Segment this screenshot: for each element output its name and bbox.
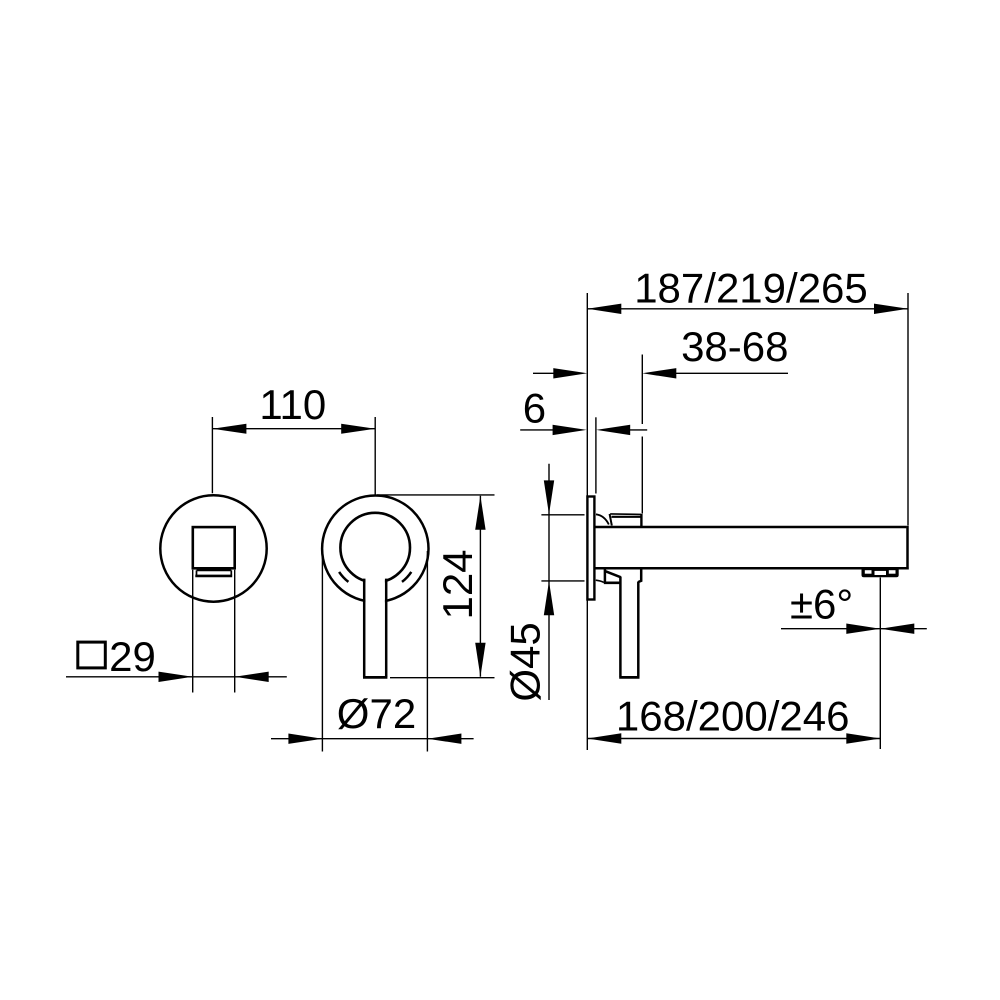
square projection extension lines <box>193 570 235 693</box>
dimension 29 label <box>109 633 156 680</box>
dimension 38-68 line with arrows <box>533 368 788 378</box>
dimension 110 label <box>259 381 326 428</box>
dimension square-29 symbol <box>78 642 106 668</box>
dimension 38-68 right extension line (with gap) <box>641 355 643 514</box>
dimension 6 right extension line <box>595 417 597 493</box>
dimension O45 label (rotated) <box>502 622 549 701</box>
lever shaft (front view) <box>363 579 387 678</box>
outlet escutcheon circle (left) <box>160 495 266 601</box>
dimension 124 label (rotated) <box>434 549 481 619</box>
dimension 6 label <box>523 385 546 432</box>
lever shaft (side) <box>619 577 639 678</box>
dimension O72 extension lines <box>322 551 427 752</box>
collar front face <box>640 514 642 526</box>
svg-text:Ø45: Ø45 <box>502 622 549 701</box>
dimension 124 line with arrows <box>475 496 485 677</box>
dimension 168/200/246 line with arrows <box>587 733 880 743</box>
lever block right edge (side) <box>638 569 641 582</box>
dash mark lower-left of ring <box>339 572 348 582</box>
dimension 168/200/246 label <box>616 693 850 740</box>
dimension 124 extension lines <box>377 495 495 678</box>
escutcheon plate (side) <box>587 497 594 600</box>
collar top face line <box>612 516 641 518</box>
dimension 187 right extension line <box>907 293 909 526</box>
dimension O45 extension lines <box>541 515 603 583</box>
dash mark lower-right of ring <box>402 572 411 582</box>
svg-text:124: 124 <box>434 549 481 619</box>
aerator centre extension line <box>879 578 881 750</box>
collar fillet curve <box>596 514 609 524</box>
spout tube (side) <box>596 526 909 570</box>
dimension +-6deg line with arrows <box>781 624 927 634</box>
dimension O72 label <box>337 690 416 737</box>
spout outlet lip <box>195 570 232 576</box>
svg-text:110: 110 <box>259 381 326 428</box>
svg-text:6: 6 <box>523 385 546 432</box>
dimension 110 extension lines <box>212 417 375 495</box>
svg-text:±6°: ±6° <box>790 581 853 628</box>
dimension 110 line with arrows <box>212 424 375 434</box>
valve wedge slant <box>605 571 620 577</box>
valve wedge left edge <box>604 569 607 582</box>
svg-text:38-68: 38-68 <box>681 323 788 370</box>
aerator <box>862 568 899 577</box>
collar top thin edge <box>610 513 641 516</box>
svg-text:187/219/265: 187/219/265 <box>634 265 868 312</box>
collar left slant edge <box>610 514 612 526</box>
dimension +-6deg label <box>790 581 853 628</box>
wall line <box>586 293 588 750</box>
dimension O72 line with arrows <box>271 734 474 744</box>
dimension 38-68 label <box>681 323 788 370</box>
svg-text:Ø72: Ø72 <box>337 690 416 737</box>
svg-text:168/200/246: 168/200/246 <box>616 693 850 740</box>
lever ring <box>340 513 410 676</box>
dimension 187/219/265 line with arrows <box>587 304 908 314</box>
svg-text:29: 29 <box>109 633 156 680</box>
valve wedge bottom <box>604 581 621 584</box>
dimension O45 line with arrows <box>544 464 554 700</box>
lever escutcheon circle (right) <box>322 496 428 602</box>
dimension 6 line with arrows <box>520 425 647 435</box>
dimension 187/219/265 label <box>634 265 868 312</box>
dimension 29 line with arrows <box>66 672 287 682</box>
spout outlet square window <box>193 527 235 568</box>
